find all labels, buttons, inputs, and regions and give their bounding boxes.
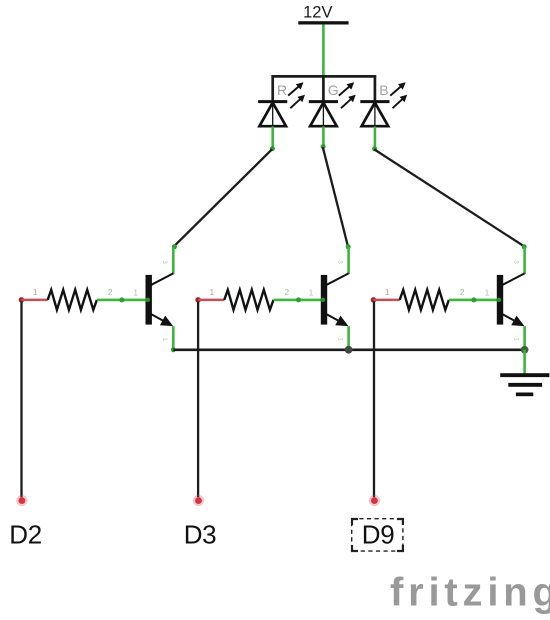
LED R light arrow 2 bbox=[290, 95, 305, 108]
LED G label bbox=[328, 82, 339, 98]
svg-text:2: 2 bbox=[285, 288, 290, 297]
svg-text:1: 1 bbox=[336, 337, 342, 341]
label Q2 collector pin bbox=[336, 260, 342, 264]
wire D2 vertical bbox=[20, 302, 22, 498]
transistor Q1 collector line bbox=[151, 273, 173, 284]
junction rail-ground bbox=[521, 346, 529, 354]
wire 12V to LED bus bbox=[322, 25, 325, 78]
svg-text:D3: D3 bbox=[184, 520, 217, 550]
svg-text:1: 1 bbox=[161, 337, 167, 341]
LED B label bbox=[379, 82, 388, 98]
LED R triangle bbox=[259, 103, 286, 127]
node R2 pin2 wire bend bbox=[296, 297, 301, 302]
wire Q2 emitter stub bbox=[347, 326, 350, 351]
wire R3 pin1 red bbox=[374, 299, 400, 302]
node D2 endpoint bbox=[16, 495, 27, 506]
svg-text:D9: D9 bbox=[362, 519, 395, 549]
label Q2 emitter pin bbox=[336, 337, 342, 341]
node rail left bend bbox=[171, 347, 176, 352]
transistor Q2 emitter arrow bbox=[327, 314, 349, 326]
LED R cathode bar bbox=[258, 100, 287, 103]
node Q2 base junction bbox=[321, 298, 326, 303]
node LED3 wire bend bottom bbox=[522, 244, 527, 249]
power symbol 12V bar bbox=[298, 21, 348, 24]
resistor R3 bbox=[400, 290, 449, 310]
LED B light arrow 2 bbox=[393, 95, 408, 108]
svg-text:3: 3 bbox=[161, 260, 167, 264]
svg-text:1: 1 bbox=[512, 337, 518, 341]
svg-text:3: 3 bbox=[336, 260, 342, 264]
wire R1 pin2 green bbox=[97, 299, 148, 302]
svg-text:2: 2 bbox=[108, 288, 113, 297]
label Q3 collector pin bbox=[512, 260, 518, 264]
wire Q1 collector stub bbox=[172, 247, 175, 274]
label Q1 base pin 1 bbox=[134, 289, 139, 298]
LED G light arrow 2 bbox=[341, 95, 356, 108]
label Q3 emitter pin bbox=[512, 337, 518, 341]
LED G anode pin bbox=[322, 75, 325, 101]
LED B triangle bbox=[362, 103, 389, 127]
svg-text:1: 1 bbox=[33, 288, 38, 297]
node LED2 wire bend bottom bbox=[346, 244, 351, 249]
node Q1 base junction bbox=[145, 298, 150, 303]
svg-text:1: 1 bbox=[385, 288, 390, 297]
label R2 pin 2 bbox=[285, 288, 290, 297]
label D9 bbox=[362, 519, 395, 549]
wire LED2 to Q2 diagonal bbox=[323, 147, 348, 246]
wire R2 pin1 red bbox=[198, 299, 224, 302]
svg-text:fritzing: fritzing bbox=[390, 571, 550, 615]
wire LED1 to Q1 diagonal bbox=[174, 149, 272, 246]
label R1 pin 1 bbox=[33, 288, 38, 297]
svg-text:1: 1 bbox=[134, 289, 139, 298]
node R3 pin2 wire bend bbox=[471, 297, 476, 302]
LED R label bbox=[277, 82, 287, 98]
selection box D9 bbox=[352, 519, 403, 551]
ground bbox=[500, 373, 549, 396]
wire LED2 cathode stub bbox=[322, 126, 325, 146]
transistor Q2 collector line bbox=[327, 273, 349, 284]
junction rail-Q2 emitter bbox=[345, 346, 353, 354]
node LED1 wire bend top bbox=[270, 146, 275, 151]
wire LED3 cathode stub bbox=[374, 126, 377, 148]
LED G light arrow 1 bbox=[339, 82, 354, 95]
wire LED3 to Q3 diagonal bbox=[374, 149, 524, 246]
node Q3 base junction bbox=[497, 298, 502, 303]
node R1 pin1 endpoint bbox=[19, 297, 25, 303]
label Q1 collector pin bbox=[161, 260, 167, 264]
svg-text:D2: D2 bbox=[9, 520, 42, 550]
wire LED anode bus bbox=[271, 75, 376, 78]
LED R light arrow 1 bbox=[288, 82, 303, 95]
wire Q3 collector stub bbox=[523, 247, 526, 274]
svg-text:1: 1 bbox=[485, 289, 490, 298]
LED B cathode bar bbox=[360, 100, 389, 103]
node LED3 wire bend top bbox=[372, 146, 377, 151]
node R1 pin2 wire bend bbox=[119, 297, 124, 302]
wire R1 pin1 red bbox=[22, 299, 48, 302]
transistor Q3 base bar bbox=[497, 275, 503, 325]
label R2 pin 1 bbox=[210, 288, 215, 297]
node LED2 wire bend top bbox=[321, 144, 326, 149]
node R3 pin1 endpoint bbox=[371, 297, 377, 303]
LED B anode pin bbox=[374, 75, 377, 101]
svg-text:1: 1 bbox=[210, 288, 215, 297]
transistor Q3 emitter arrow bbox=[503, 314, 525, 326]
svg-text:B: B bbox=[379, 82, 388, 98]
wire Q2 collector stub bbox=[347, 247, 350, 274]
LED B center lead bbox=[374, 103, 376, 126]
LED G center lead bbox=[322, 103, 324, 126]
wire D3 vertical bbox=[197, 302, 199, 498]
node R2 pin1 endpoint bbox=[195, 297, 201, 303]
wire Q1 emitter stub bbox=[172, 326, 175, 351]
svg-text:3: 3 bbox=[512, 260, 518, 264]
label R1 pin 2 bbox=[108, 288, 113, 297]
node D9 endpoint bbox=[369, 495, 380, 506]
resistor R2 bbox=[224, 290, 273, 310]
wire Q3 emitter stub bbox=[523, 326, 526, 351]
label D3 bbox=[184, 520, 217, 550]
fritzing watermark bbox=[390, 571, 550, 615]
wire to ground bbox=[523, 350, 526, 374]
transistor Q2 base bar bbox=[321, 275, 327, 325]
transistor Q3 collector line bbox=[503, 273, 525, 284]
label Q2 base pin 1 bbox=[309, 289, 314, 298]
LED G cathode bar bbox=[309, 100, 338, 103]
wire D9 vertical bbox=[373, 302, 375, 498]
svg-text:R: R bbox=[277, 82, 287, 98]
wire R2 pin2 green bbox=[274, 299, 324, 302]
label Q3 base pin 1 bbox=[485, 289, 490, 298]
transistor Q1 emitter arrow bbox=[151, 314, 173, 326]
label D2 bbox=[9, 520, 42, 550]
wire emitter rail bbox=[173, 348, 524, 351]
svg-text:G: G bbox=[328, 82, 339, 98]
resistor R1 bbox=[48, 290, 97, 310]
power label 12V bbox=[303, 3, 332, 21]
wire LED1 cathode stub bbox=[271, 126, 274, 148]
node LED1 wire bend bottom bbox=[172, 244, 177, 249]
LED R anode pin bbox=[271, 75, 274, 101]
LED B light arrow 1 bbox=[390, 82, 405, 95]
node D3 endpoint bbox=[193, 495, 204, 506]
LED G triangle bbox=[310, 103, 337, 127]
svg-text:2: 2 bbox=[460, 288, 465, 297]
label R3 pin 2 bbox=[460, 288, 465, 297]
svg-text:1: 1 bbox=[309, 289, 314, 298]
svg-text:12V: 12V bbox=[303, 3, 332, 21]
transistor Q1 base bar bbox=[146, 275, 152, 325]
label Q1 emitter pin bbox=[161, 337, 167, 341]
wire R3 pin2 green bbox=[449, 299, 499, 302]
label R3 pin 1 bbox=[385, 288, 390, 297]
LED R center lead bbox=[272, 103, 274, 126]
